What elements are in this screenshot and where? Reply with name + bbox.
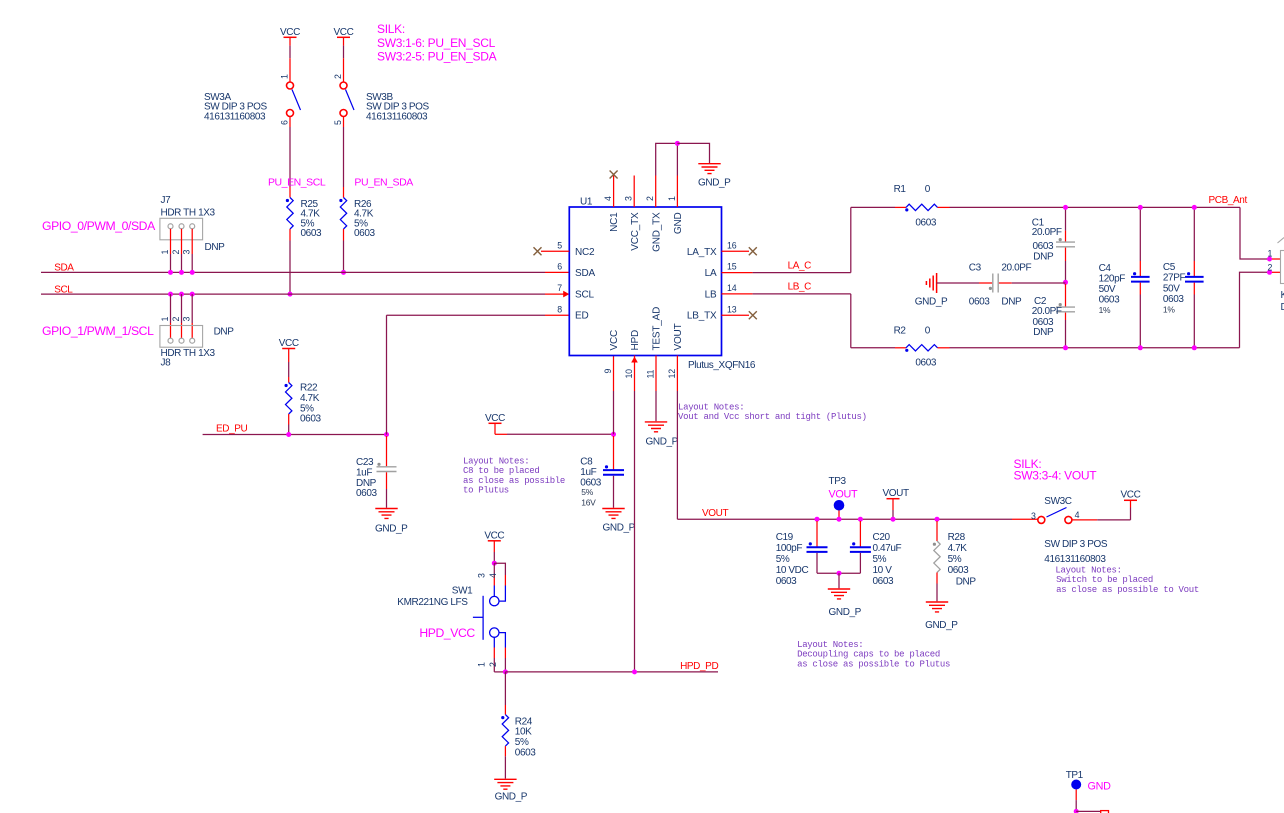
wire rail to pin1	[1240, 207, 1270, 259]
svg-text:D: D	[1281, 302, 1284, 313]
resistor R28	[936, 521, 938, 541]
svg-text:0603: 0603	[1033, 241, 1054, 252]
svg-text:0603: 0603	[515, 748, 536, 759]
svg-text:LA_C: LA_C	[788, 260, 812, 271]
svg-text:5%: 5%	[515, 737, 529, 748]
svg-text:5%: 5%	[776, 554, 790, 565]
svg-text:NC1: NC1	[609, 212, 620, 232]
svg-text:50V: 50V	[1163, 284, 1180, 295]
svg-text:J8: J8	[161, 358, 172, 369]
svg-text:GND_P: GND_P	[925, 620, 958, 631]
junction R25-SCL	[288, 292, 293, 297]
svg-text:as close as possible: as close as possible	[463, 476, 565, 486]
svg-text:DNP: DNP	[956, 577, 977, 588]
switch SW3B	[340, 82, 347, 89]
svg-text:SCL: SCL	[575, 290, 594, 301]
U1 pin 16 LA_TX	[722, 250, 750, 252]
svg-text:GND_P: GND_P	[375, 524, 408, 535]
U1 pin 3 VCC_TX	[633, 176, 635, 208]
svg-text:Layout Notes:: Layout Notes:	[463, 457, 529, 467]
resistor R24	[504, 672, 506, 705]
svg-text:C23: C23	[356, 457, 374, 468]
wire C5 down	[1193, 283, 1195, 295]
wire U1 pin 9 VCC	[613, 356, 615, 392]
resistor R26	[339, 199, 342, 202]
svg-text:4: 4	[603, 196, 613, 201]
svg-text:3: 3	[1031, 511, 1036, 521]
svg-text:20.0PF: 20.0PF	[1032, 306, 1062, 317]
svg-text:GND_P: GND_P	[915, 297, 948, 308]
svg-text:0603: 0603	[1099, 295, 1120, 306]
capacitor C20	[859, 521, 861, 547]
junction VCC-pin9	[611, 432, 616, 437]
junction C3	[1063, 280, 1068, 285]
wire C1 branch top	[1065, 207, 1067, 230]
svg-text:50V: 50V	[1099, 284, 1116, 295]
svg-text:VCC: VCC	[484, 531, 504, 542]
svg-text:1: 1	[1268, 249, 1273, 259]
svg-text:SW3:2-5: PU_EN_SDA: SW3:2-5: PU_EN_SDA	[377, 50, 497, 64]
svg-text:4.7K: 4.7K	[948, 543, 968, 554]
wire LA to rail	[753, 272, 851, 274]
svg-text:VCC: VCC	[280, 27, 300, 38]
wire C2 down	[1065, 313, 1067, 320]
svg-text:14: 14	[727, 283, 737, 293]
svg-text:416131160803: 416131160803	[204, 111, 266, 122]
wire to gnd (caps)	[838, 573, 840, 588]
svg-text:100pF: 100pF	[776, 543, 803, 554]
junction ant pin2	[1267, 270, 1272, 275]
svg-text:SDA: SDA	[575, 268, 595, 279]
svg-text:3: 3	[476, 573, 486, 578]
svg-text:1: 1	[160, 317, 170, 322]
svg-text:0.47uF: 0.47uF	[873, 543, 902, 554]
svg-text:2: 2	[488, 662, 498, 667]
svg-text:10: 10	[624, 369, 634, 379]
U1 pin 10 HPD	[634, 356, 636, 392]
wire TP1 gnd	[1076, 810, 1101, 812]
U1 pin 11 TEST_AD	[655, 356, 657, 392]
junction ED_PU-C23	[384, 432, 389, 437]
wire ED vertical	[386, 315, 388, 434]
svg-text:416131160803: 416131160803	[366, 111, 428, 122]
svg-text:5%: 5%	[300, 403, 314, 414]
svg-text:GND: GND	[673, 213, 684, 235]
svg-text:GPIO_0/PWM_0/SDA: GPIO_0/PWM_0/SDA	[42, 219, 156, 233]
wire bottom rail right	[938, 347, 950, 349]
svg-text:ED_PU: ED_PU	[216, 424, 248, 435]
junction HPD pin10	[632, 669, 637, 674]
svg-text:13: 13	[727, 304, 737, 314]
svg-text:PU_EN_SCL: PU_EN_SCL	[268, 177, 326, 189]
svg-text:10K: 10K	[515, 726, 532, 737]
wire SW1 bottom	[494, 671, 505, 673]
svg-text:3: 3	[182, 317, 192, 322]
wire top rail left	[851, 206, 895, 208]
connector PCB antenna (partial)	[1281, 251, 1284, 284]
wire VCC to pin9	[495, 433, 507, 435]
ground GND_P (R24)	[494, 779, 516, 789]
svg-text:0603: 0603	[915, 358, 936, 369]
svg-text:3: 3	[624, 196, 634, 201]
svg-text:GPIO_1/PWM_1/SCL: GPIO_1/PWM_1/SCL	[42, 324, 154, 338]
svg-text:10 VDC: 10 VDC	[776, 565, 809, 576]
svg-text:0603: 0603	[1163, 294, 1184, 305]
wire SCL rail	[41, 293, 545, 295]
svg-text:C20: C20	[873, 532, 891, 543]
svg-text:GND_TX: GND_TX	[651, 212, 662, 252]
svg-text:to Plutus: to Plutus	[463, 486, 509, 496]
svg-text:20.0PF: 20.0PF	[1001, 263, 1031, 274]
U1 pin 15 LA	[722, 272, 753, 274]
junction J7-1	[168, 270, 173, 275]
svg-text:GND_P: GND_P	[829, 607, 862, 618]
svg-text:VOUT: VOUT	[829, 489, 858, 501]
junction C1 top	[1063, 205, 1068, 210]
svg-text:SCL: SCL	[54, 284, 73, 295]
svg-text:VCC: VCC	[334, 27, 354, 38]
svg-text:0603: 0603	[873, 576, 894, 587]
svg-text:VCC_TX: VCC_TX	[630, 212, 641, 251]
resistor R1	[905, 208, 908, 211]
wire SW3A to R25	[289, 117, 291, 128]
svg-text:9: 9	[603, 369, 613, 374]
svg-text:HPD_PD: HPD_PD	[680, 661, 718, 672]
junction J7-3	[190, 270, 195, 275]
resistor R25	[286, 199, 289, 202]
junction R28	[935, 517, 940, 522]
svg-text:HPD_VCC: HPD_VCC	[419, 626, 475, 640]
resistor R22	[285, 384, 288, 387]
svg-text:SW3:3-4: VOUT: SW3:3-4: VOUT	[1014, 468, 1098, 482]
svg-text:GND_P: GND_P	[646, 437, 679, 448]
svg-text:GND: GND	[1088, 781, 1112, 793]
wire pin 12 down	[676, 391, 678, 519]
junction J8-2	[179, 292, 184, 297]
svg-text:GND_P: GND_P	[495, 792, 528, 803]
junction ant pin1	[1267, 257, 1272, 262]
svg-text:as close as possible to Plutus: as close as possible to Plutus	[797, 659, 950, 669]
svg-text:0603: 0603	[915, 218, 936, 229]
svg-text:0603: 0603	[354, 228, 375, 239]
svg-text:VCC: VCC	[609, 330, 620, 351]
svg-text:Decoupling caps to be placed: Decoupling caps to be placed	[797, 650, 940, 660]
wire pin 11 to gnd	[655, 391, 657, 421]
wire R25 to SCL	[289, 229, 291, 241]
wire cap gnd link	[817, 572, 860, 574]
wire C4 down	[1139, 283, 1141, 295]
switch SW3A	[287, 82, 294, 89]
svg-text:Plutus_XQFN16: Plutus_XQFN16	[688, 360, 756, 371]
resistor R2	[905, 349, 908, 352]
svg-text:R22: R22	[300, 383, 318, 394]
capacitor C3	[992, 274, 994, 293]
svg-text:LB_C: LB_C	[788, 282, 812, 293]
svg-text:0603: 0603	[969, 297, 990, 308]
svg-text:GND_P: GND_P	[603, 523, 636, 534]
U1 pin 13 LB_TX	[722, 314, 750, 316]
svg-text:1: 1	[476, 662, 486, 667]
junction C20	[858, 517, 863, 522]
svg-text:2: 2	[333, 74, 343, 79]
svg-text:0603: 0603	[300, 414, 321, 425]
svg-text:ED: ED	[575, 311, 589, 322]
svg-text:J7: J7	[161, 195, 172, 206]
U1 pin 1 GND	[676, 176, 678, 208]
wire C4 branch	[1139, 207, 1141, 261]
svg-text:VOUT: VOUT	[883, 488, 909, 499]
svg-text:C19: C19	[776, 532, 794, 543]
svg-text:U1: U1	[580, 197, 593, 208]
capacitor C1	[1056, 241, 1075, 243]
svg-text:HPD: HPD	[630, 330, 641, 351]
svg-text:LB: LB	[705, 290, 717, 301]
junction VOUT flag	[891, 517, 896, 522]
svg-text:0: 0	[925, 184, 931, 195]
svg-text:5: 5	[557, 240, 562, 250]
ground GND_P (C8)	[602, 509, 624, 519]
svg-text:as close as possible to Vout: as close as possible to Vout	[1056, 585, 1199, 595]
svg-text:4: 4	[488, 573, 498, 578]
wire C3 to junction	[999, 282, 1012, 284]
ground GND_P (TEST_AD)	[645, 422, 667, 432]
svg-text:6: 6	[557, 262, 562, 272]
svg-text:16: 16	[727, 240, 737, 250]
junction C5 top	[1192, 205, 1197, 210]
junction TP1	[1074, 809, 1079, 813]
U1 pin 12 VOUT	[676, 356, 678, 392]
svg-text:5: 5	[333, 120, 343, 125]
U1 pin 4 NC1	[613, 176, 615, 208]
svg-text:SW1: SW1	[452, 586, 473, 597]
svg-text:DNP: DNP	[214, 327, 235, 338]
junction GND net	[675, 141, 680, 146]
svg-text:1uF: 1uF	[356, 467, 372, 478]
capacitor C4	[1131, 276, 1150, 278]
svg-text:C3: C3	[969, 263, 982, 274]
junction J8-3	[190, 292, 195, 297]
svg-text:KMR221NG LFS: KMR221NG LFS	[397, 597, 468, 608]
svg-text:20.0PF: 20.0PF	[1032, 227, 1062, 238]
svg-text:VOUT: VOUT	[673, 323, 684, 350]
junction C4 top	[1138, 205, 1143, 210]
capacitor C2	[1065, 284, 1067, 307]
svg-text:11: 11	[645, 369, 655, 378]
svg-text:PCB_Ant: PCB_Ant	[1209, 195, 1248, 206]
svg-text:1: 1	[667, 196, 677, 201]
svg-text:R1: R1	[894, 184, 907, 195]
wire SDA rail	[41, 271, 545, 273]
svg-text:TP3: TP3	[829, 476, 847, 487]
svg-text:C8: C8	[580, 457, 593, 468]
wire ED to U1 pin 8	[387, 314, 546, 316]
svg-text:15: 15	[727, 262, 737, 272]
svg-text:Layout Notes:: Layout Notes:	[1055, 566, 1121, 576]
wire C5 branch	[1193, 207, 1195, 261]
svg-text:3: 3	[182, 250, 192, 255]
svg-text:SW3C: SW3C	[1044, 496, 1071, 507]
svg-text:R2: R2	[894, 326, 907, 337]
junction C4 bottom	[1138, 345, 1143, 350]
svg-text:5%: 5%	[873, 554, 887, 565]
junction C19	[815, 517, 820, 522]
svg-text:DNP: DNP	[1033, 327, 1054, 338]
junction R26-SDA	[341, 270, 346, 275]
svg-text:27PF: 27PF	[1163, 273, 1186, 284]
ground GND_P (C3)	[926, 273, 936, 293]
svg-text:5%: 5%	[581, 487, 593, 497]
svg-text:DNP: DNP	[356, 478, 377, 489]
svg-text:1%: 1%	[1163, 305, 1175, 315]
svg-text:4: 4	[1075, 510, 1080, 520]
ground GND_P (top)	[698, 164, 720, 174]
junction SW1 top	[492, 561, 497, 566]
svg-text:SW3:1-6: PU_EN_SCL: SW3:1-6: PU_EN_SCL	[377, 36, 496, 50]
svg-text:SDA: SDA	[54, 263, 74, 274]
junction C5 bottom	[1192, 345, 1197, 350]
junction R22-ED_PU	[286, 432, 291, 437]
wire SW3B to R26	[343, 117, 345, 128]
svg-text:VCC: VCC	[1121, 489, 1141, 500]
svg-text:Layout Notes:: Layout Notes:	[678, 403, 744, 413]
J7 pin 3 wire	[191, 229, 193, 254]
U1 pin 5 NC2	[541, 250, 569, 252]
wire C1 to C3	[1065, 248, 1067, 261]
junction TP3	[837, 517, 842, 522]
junction C2 bottom	[1063, 345, 1068, 350]
svg-text:Switch to be placed: Switch to be placed	[1056, 575, 1153, 585]
wire pin1 up	[676, 143, 678, 175]
svg-text:Vout and Vcc short and tight (: Vout and Vcc short and tight (Plutus)	[678, 412, 867, 422]
svg-text:K: K	[1281, 290, 1284, 301]
svg-text:416131160803: 416131160803	[1044, 554, 1106, 565]
svg-text:C5: C5	[1163, 262, 1176, 273]
capacitor C23	[386, 436, 388, 466]
wire VOUT rail	[677, 518, 1012, 520]
ground GND_P (R28)	[926, 602, 948, 612]
wire HPD_PD	[505, 671, 718, 673]
svg-text:SILK:: SILK:	[377, 22, 405, 36]
svg-text:DNP: DNP	[205, 242, 226, 253]
wire bottom rail left	[851, 347, 895, 349]
svg-text:0603: 0603	[776, 576, 797, 587]
svg-text:4.7K: 4.7K	[300, 393, 320, 404]
svg-text:DNP: DNP	[1001, 297, 1022, 308]
svg-text:SW DIP 3 POS: SW DIP 3 POS	[1044, 539, 1108, 550]
op-amp U1 body	[569, 207, 721, 356]
svg-text:8: 8	[557, 304, 562, 314]
svg-text:0: 0	[925, 326, 931, 337]
ground GND_P (C19/C20)	[828, 589, 850, 599]
wire R22 to ED_PU	[288, 414, 290, 425]
svg-text:5%: 5%	[948, 554, 962, 565]
svg-text:6: 6	[280, 120, 290, 125]
wire to GND_P top	[677, 143, 709, 163]
junction cap gnd	[837, 571, 842, 576]
svg-text:2: 2	[171, 317, 181, 322]
U1 pin 2 GND_TX	[655, 176, 657, 208]
svg-text:C8 to be placed: C8 to be placed	[463, 466, 540, 476]
svg-text:LA: LA	[705, 268, 717, 279]
svg-text:LA_TX: LA_TX	[687, 247, 717, 258]
svg-text:1: 1	[160, 250, 170, 255]
svg-text:0603: 0603	[948, 565, 969, 576]
svg-text:NC2: NC2	[575, 247, 595, 258]
capacitor C8	[613, 436, 615, 470]
wire LB to rail	[753, 293, 851, 295]
junction SW1-HPD	[503, 669, 508, 674]
svg-text:0603: 0603	[356, 488, 377, 499]
svg-text:TEST_AD: TEST_AD	[652, 307, 663, 351]
svg-text:120pF: 120pF	[1099, 274, 1126, 285]
capacitor C5	[1185, 276, 1204, 278]
wire gnd to C3	[937, 282, 979, 284]
svg-text:PU_EN_SDA: PU_EN_SDA	[354, 177, 413, 189]
svg-text:12: 12	[667, 369, 677, 379]
wire pin 10 down	[634, 391, 636, 672]
wire top rail right	[938, 206, 950, 208]
svg-text:DNP: DNP	[1033, 251, 1054, 262]
switch SW1	[493, 563, 495, 575]
svg-text:1: 1	[280, 74, 290, 79]
svg-text:2: 2	[1268, 263, 1273, 273]
svg-text:HDR TH 1X3: HDR TH 1X3	[161, 208, 216, 219]
junction J7-2	[179, 270, 184, 275]
wire pin2 up	[656, 143, 678, 175]
svg-text:16V: 16V	[581, 498, 596, 508]
capacitor C19	[816, 521, 818, 547]
svg-text:VCC: VCC	[279, 338, 299, 349]
svg-text:2: 2	[645, 196, 655, 201]
junction J8-1	[168, 292, 173, 297]
svg-text:TP1: TP1	[1066, 770, 1084, 781]
wire SW3C to VCC	[1072, 519, 1097, 521]
svg-text:R28: R28	[948, 532, 966, 543]
svg-text:LB_TX: LB_TX	[687, 311, 717, 322]
wire R26 to SDA	[343, 229, 345, 241]
wire ED_PU rail	[203, 434, 387, 436]
svg-text:10 V: 10 V	[873, 565, 893, 576]
svg-text:VOUT: VOUT	[702, 508, 728, 519]
U1 pin 14 LB	[722, 293, 753, 295]
wire rail to pin2	[1240, 272, 1270, 348]
svg-text:1%: 1%	[1099, 305, 1111, 315]
J7 pin 2 wire	[181, 229, 183, 254]
svg-text:GND_P: GND_P	[698, 178, 731, 189]
svg-text:2: 2	[171, 250, 181, 255]
J7 pin 1 wire	[170, 229, 172, 254]
svg-text:0603: 0603	[301, 228, 322, 239]
svg-text:7: 7	[557, 283, 562, 293]
svg-text:VCC: VCC	[485, 413, 505, 424]
ground GND_P (C23)	[375, 509, 397, 519]
svg-text:C4: C4	[1099, 263, 1112, 274]
svg-text:Layout Notes:: Layout Notes:	[797, 640, 863, 650]
ground symbol (partial)	[1101, 811, 1109, 813]
